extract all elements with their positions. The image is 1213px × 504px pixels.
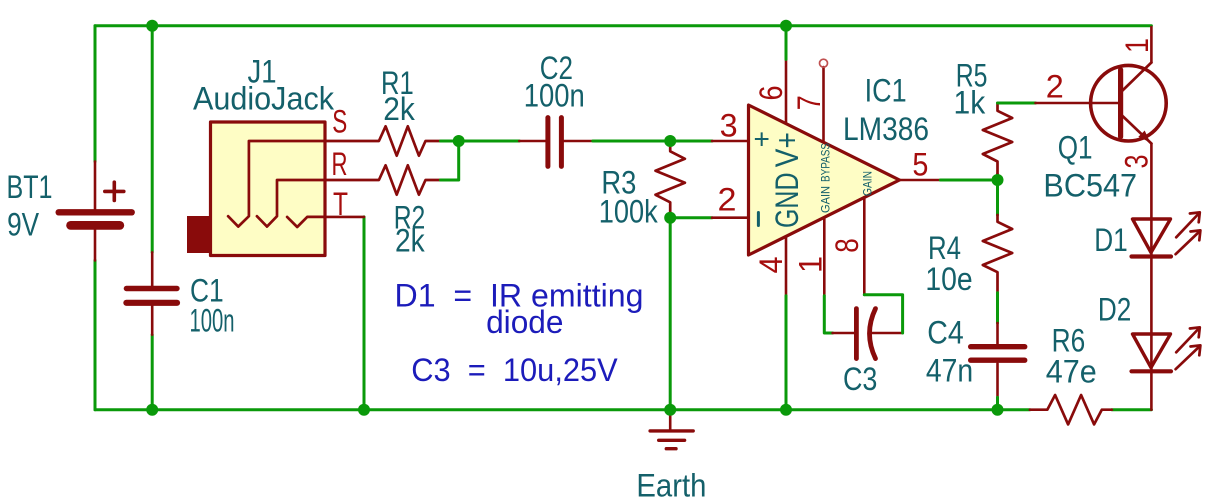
svg-text:AudioJack: AudioJack: [193, 80, 335, 116]
svg-text:V+: V+: [769, 132, 805, 167]
svg-text:C3 = 10u,25V: C3 = 10u,25V: [411, 352, 618, 388]
svg-text:100n: 100n: [524, 78, 585, 114]
J1 sleeve filled pad: [187, 216, 212, 253]
junction dot top rail pin6: [780, 20, 792, 32]
wire pin5 to output junction: [940, 179, 997, 182]
svg-text:8: 8: [829, 238, 865, 253]
wire left vertical BT1 to bottom rail: [94, 260, 97, 409]
svg-text:2k: 2k: [395, 223, 426, 259]
svg-text:1: 1: [793, 256, 829, 273]
svg-text:GAIN: GAIN: [819, 186, 833, 213]
wire C1 branch lower: [151, 335, 154, 410]
svg-text:6: 6: [753, 86, 789, 101]
junction dot C2 R3 pin3: [664, 135, 676, 147]
pin 5: [900, 179, 941, 182]
svg-text:5: 5: [912, 146, 928, 182]
junction dot C1 bottom: [146, 404, 158, 416]
svg-text:2: 2: [718, 182, 737, 218]
wire bottom rail right of R6: [1112, 408, 1152, 411]
wire bottom ground rail left part: [95, 408, 1030, 411]
pin 8: [863, 197, 866, 294]
wire R5 top to Q1 base: [998, 102, 1036, 105]
svg-text:9V: 9V: [7, 207, 40, 243]
svg-text:47n: 47n: [926, 353, 973, 389]
pin T stub: [325, 216, 364, 219]
svg-text:C4: C4: [927, 315, 963, 351]
pin 6: [785, 59, 788, 123]
svg-text:1k: 1k: [954, 84, 987, 120]
svg-text:LM386: LM386: [843, 111, 929, 147]
svg-text:R: R: [332, 146, 348, 182]
svg-text:+: +: [754, 124, 770, 155]
pin 7: [822, 67, 825, 142]
wire junction3 to pin2: [670, 216, 712, 219]
svg-text:100k: 100k: [599, 194, 659, 230]
svg-text:S: S: [332, 104, 347, 140]
junction dot C4 ground: [992, 404, 1004, 416]
pin name - (pin2): [757, 213, 760, 226]
junction dot T ground: [358, 404, 370, 416]
resistor R2: [325, 165, 440, 194]
svg-text:GAIN: GAIN: [861, 171, 875, 196]
Q1 collector pin: [1150, 27, 1153, 63]
Q1 emitter arrow head: [1138, 131, 1150, 143]
svg-text:D2: D2: [1098, 292, 1131, 328]
svg-text:D1: D1: [1094, 222, 1128, 258]
junction dot top rail C1: [146, 20, 158, 32]
resistor R5: [983, 103, 1012, 174]
J1 contact R internal: [257, 180, 325, 227]
svg-text:diode: diode: [486, 304, 563, 340]
pin 4: [785, 236, 788, 295]
svg-text:BT1: BT1: [7, 169, 53, 205]
LED D2: [1132, 327, 1201, 371]
op-amp IC1 LM386 body: [749, 105, 900, 255]
resistor R3: [656, 141, 685, 218]
svg-text:BYPASS: BYPASS: [819, 143, 833, 182]
resistor R1: [325, 126, 440, 155]
svg-text:47e: 47e: [1046, 353, 1097, 389]
svg-text:2k: 2k: [383, 91, 416, 127]
LED D1: [1132, 212, 1201, 256]
svg-text:BC547: BC547: [1043, 168, 1137, 204]
svg-text:C3: C3: [843, 361, 877, 397]
J1 contact T internal: [287, 217, 325, 227]
Q1 base pin: [1036, 102, 1119, 105]
wire junction to C2: [459, 140, 520, 143]
capacitor C1: [126, 252, 177, 334]
resistor R4: [983, 215, 1012, 293]
connector J1 AudioJack body: [211, 122, 326, 256]
capacitor C4: [971, 323, 1025, 397]
wire R2 out corner up to junction: [440, 141, 458, 180]
svg-text:4: 4: [753, 257, 789, 274]
capacitor C2: [519, 118, 593, 167]
wire output junction up to R5: [996, 174, 999, 180]
wire R3 bottom to ground rail: [669, 218, 672, 410]
resistor R6: [1030, 395, 1112, 424]
junction dot pin4 ground: [780, 404, 792, 416]
ground Earth symbol: [650, 413, 693, 449]
svg-text:Q1: Q1: [1058, 130, 1093, 166]
wire T pin to ground rail: [363, 217, 366, 410]
wire pin1 down: [824, 296, 832, 333]
wire pin4 to ground rail: [785, 296, 788, 410]
wire junction2 to pin3: [670, 140, 712, 143]
wire left vertical from top rail to BT1: [94, 26, 97, 162]
svg-text:IC1: IC1: [865, 73, 907, 109]
wire top rail to pin6: [785, 26, 788, 60]
wire R1 out to junction: [440, 140, 458, 143]
wire top power rail: [95, 24, 1151, 27]
capacitor C3: [833, 309, 903, 359]
junction dot R3 pin2: [664, 212, 676, 224]
svg-text:1: 1: [1119, 38, 1155, 53]
junction dot earth: [664, 404, 676, 416]
pin 2: [712, 216, 748, 219]
svg-text:GND: GND: [769, 173, 805, 229]
wire output junction down to R4: [996, 180, 999, 215]
wire C2 to junction2: [593, 140, 670, 143]
wire R4 to C4: [996, 293, 999, 323]
junction dot R1 R2 output: [453, 135, 465, 147]
svg-text:2: 2: [1046, 69, 1064, 105]
Q1 collector diagonal: [1122, 63, 1151, 92]
junction dot output node: [992, 174, 1004, 186]
J1 contact S internal: [228, 141, 325, 227]
battery BT1: [59, 162, 132, 261]
Q1 emitter diagonal: [1122, 116, 1151, 144]
wire C1 branch upper: [151, 26, 154, 253]
svg-text:Earth: Earth: [636, 468, 706, 504]
pin 7 unconnected circle: [820, 59, 828, 67]
wire C3 right up to pin8: [864, 295, 902, 333]
Q1 base bar: [1118, 70, 1123, 137]
svg-text:100n: 100n: [190, 303, 235, 339]
svg-text:10e: 10e: [925, 261, 972, 297]
svg-text:3: 3: [720, 108, 738, 144]
wire C4 to ground rail: [996, 397, 999, 409]
pin 3: [712, 140, 748, 143]
svg-text:7: 7: [791, 95, 827, 110]
transistor Q1 BC547: [1091, 65, 1167, 141]
pin 1: [823, 218, 826, 296]
wire Q1 emitter through D1 D2 to bottom rail: [1150, 144, 1153, 410]
svg-text:3: 3: [1119, 155, 1155, 169]
